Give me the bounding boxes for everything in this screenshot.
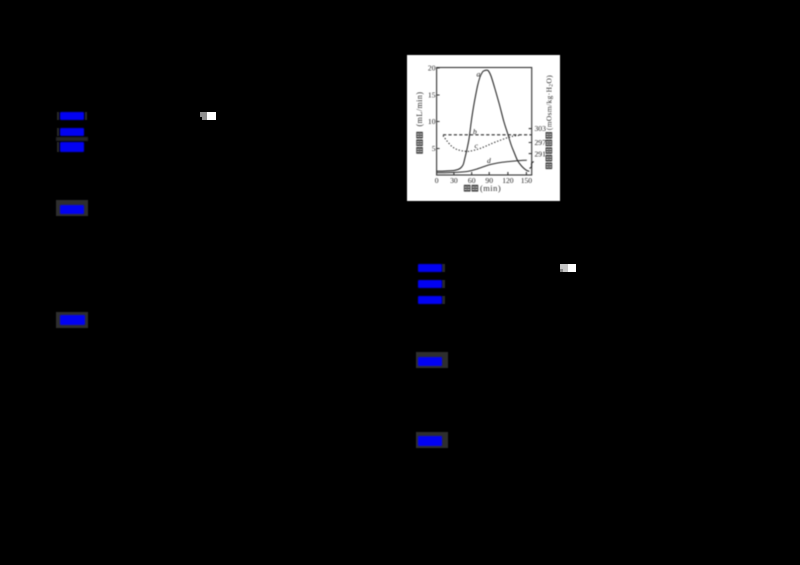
answer label L4 [60,205,84,214]
answer label R5 highlight box [416,432,448,448]
svg-text:120: 120 [502,176,514,185]
svg-text:d: d [487,156,491,165]
answer label R4 highlight box [416,352,448,368]
inline formula image P1 [200,112,207,120]
left axis title: 排尿量 glyph blobs + (mL/min) [416,132,423,154]
right axis title: 血浆渗透压 glyph blobs + (mOsm/kg·H2O) [546,132,553,169]
svg-text:(mOsm/kg·H2O): (mOsm/kg·H2O) [544,75,554,130]
svg-text:10: 10 [428,117,436,126]
curve c dotted [443,136,519,152]
answer label R1 [442,264,445,272]
svg-text:b: b [473,127,477,136]
svg-text:297: 297 [535,138,547,147]
answer label L5 [60,315,85,325]
answer label R3 [442,296,445,304]
answer label L2 bracket [57,128,60,136]
svg-text:20: 20 [428,64,436,73]
svg-text:60: 60 [468,176,476,185]
x axis title: 时间 glyph blobs + (min) [464,185,479,192]
answer label L3 bracket [57,142,60,152]
inline formula image P2 [560,264,568,272]
answer label L5 highlight box [56,312,88,328]
right ticks [529,129,532,154]
answer label L1 [60,112,84,120]
curve d [437,160,527,173]
answer label L4 highlight box [56,200,88,216]
axis break squiggle [529,162,533,169]
svg-text:a: a [477,70,481,79]
svg-text:5: 5 [432,144,436,153]
answer label R4 [418,357,442,366]
chart figure [407,55,560,201]
plot frame [437,68,532,176]
answer label L2 [60,128,85,136]
svg-text:30: 30 [450,176,458,185]
bottom ticks [454,172,527,175]
curve b dashed [443,134,532,136]
left ticks [437,68,440,149]
answer label L3 [60,142,85,153]
svg-text:150: 150 [521,176,533,185]
labels [428,64,546,185]
svg-text:(mL/min): (mL/min) [415,92,424,127]
svg-text:0: 0 [435,176,439,185]
svg-text:291: 291 [535,150,547,159]
separator gray band [56,137,88,141]
answer label R2 [442,280,445,288]
answer label L1 highlight box [57,112,60,120]
svg-text:(min): (min) [480,184,501,193]
answer label R5 [418,436,442,447]
curve a [437,70,530,171]
svg-text:15: 15 [428,91,436,100]
